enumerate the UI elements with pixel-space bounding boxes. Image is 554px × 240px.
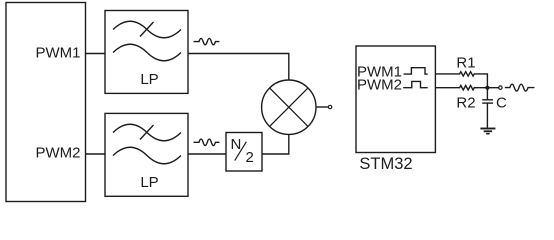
svg-text:STM32: STM32 — [359, 155, 412, 173]
svg-text:PWM2: PWM2 — [36, 145, 81, 162]
svg-text:PWM2: PWM2 — [357, 77, 402, 94]
svg-text:LP: LP — [140, 174, 158, 191]
svg-text:2: 2 — [246, 149, 254, 166]
svg-text:R2: R2 — [456, 95, 475, 112]
svg-text:N: N — [231, 136, 242, 153]
svg-text:R1: R1 — [456, 54, 475, 71]
svg-text:PWM1: PWM1 — [36, 44, 81, 61]
svg-text:LP: LP — [140, 71, 158, 88]
svg-text:C: C — [496, 95, 507, 112]
